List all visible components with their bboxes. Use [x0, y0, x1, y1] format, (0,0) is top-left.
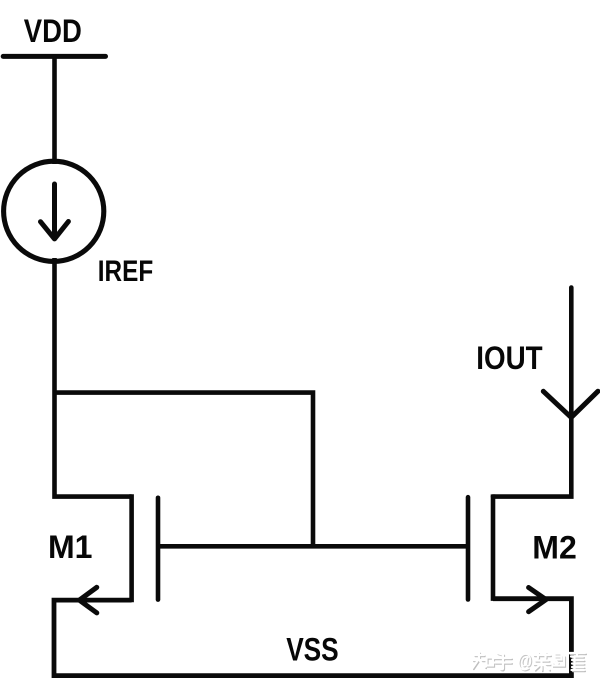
svg-text:M1: M1 — [48, 529, 93, 565]
transistor M2 channel bar — [491, 494, 496, 601]
wire: common gate connection M1-M2 — [158, 544, 468, 549]
transistor M2 gate bar — [466, 497, 471, 599]
current source IREF (circle) — [4, 161, 104, 261]
transistor M2 drain lead and IOUT wire — [493, 288, 571, 497]
svg-text:VSS: VSS — [286, 631, 339, 668]
current source IREF arrow head — [41, 222, 69, 239]
svg-text:IREF: IREF — [98, 255, 153, 288]
wire: IREF to M1 drain (node A) — [55, 258, 132, 497]
transistor M1 source lead to VSS rail to M2 source lead — [54, 599, 571, 676]
svg-text:@: @ — [518, 650, 533, 673]
svg-text:M2: M2 — [532, 530, 577, 566]
transistor M2 source arrow — [529, 588, 546, 612]
svg-text:VDD: VDD — [24, 13, 82, 49]
wire: VDD bar down to IREF current source — [52, 57, 57, 165]
wire: gate bus horizontal from node A — [55, 393, 314, 547]
VDD power rail bar — [3, 54, 105, 59]
IOUT arrow head — [543, 391, 598, 417]
svg-text:IOUT: IOUT — [476, 339, 542, 376]
transistor M1 gate bar — [156, 498, 161, 600]
transistor M1 source arrow — [79, 587, 97, 613]
transistor M1 channel bar — [129, 494, 134, 602]
current source IREF arrow shaft — [52, 184, 57, 236]
watermark 知乎 @菜鸟霍 (drawn as vector strokes) — [473, 650, 587, 674]
